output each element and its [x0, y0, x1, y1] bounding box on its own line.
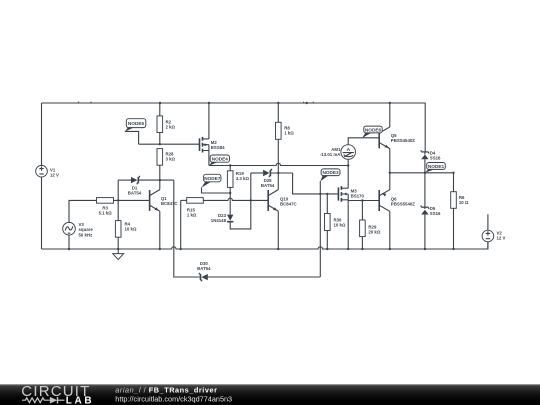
wire NODE4 net (M2 drain to AM1) [209, 163, 350, 166]
footer text [115, 385, 232, 403]
resistor R4 [115, 221, 137, 238]
svg-text:BAT54: BAT54 [197, 266, 211, 271]
svg-text:http://circuitlab.com/ck3qd774: http://circuitlab.com/ck3qd774an5n3 [115, 394, 232, 403]
resistor R8 [276, 103, 295, 173]
svg-text:BC847C: BC847C [161, 201, 179, 206]
svg-text:NODE4: NODE4 [212, 157, 229, 162]
resistor R30 [325, 193, 346, 249]
resistor R3 [97, 198, 114, 216]
wire M3 source to Q6 base [348, 199, 379, 201]
ground [113, 249, 124, 260]
transistor Q10 BC847C [268, 173, 297, 249]
svg-text:BS170: BS170 [351, 194, 365, 199]
svg-text:3.3 kΩ: 3.3 kΩ [236, 176, 250, 181]
resistor R6 [451, 173, 469, 249]
svg-text:NODE1: NODE1 [428, 164, 445, 169]
svg-text:1N4148: 1N4148 [211, 218, 227, 223]
svg-text:20 kΩ: 20 kΩ [368, 230, 380, 235]
svg-text:10 kΩ: 10 kΩ [334, 222, 346, 227]
resistor R28 [157, 149, 176, 181]
ammeter AM1 [320, 138, 379, 166]
footer bar [0, 384, 540, 405]
svg-text:SS16: SS16 [430, 156, 441, 161]
svg-text:12 V: 12 V [497, 236, 506, 241]
svg-text:1 kΩ: 1 kΩ [284, 131, 294, 136]
svg-text:LAB: LAB [66, 395, 94, 405]
voltage source V3 square 50 kHz [63, 200, 97, 249]
transistor Q5 PBSS4540Z [379, 103, 415, 173]
svg-text:5.1 kΩ: 5.1 kΩ [99, 211, 113, 216]
svg-text:1 kΩ: 1 kΩ [187, 212, 197, 217]
wire R15 to Q10 base [203, 198, 267, 200]
svg-text:2 kΩ: 2 kΩ [166, 124, 176, 129]
logo CircuitLab [21, 383, 94, 405]
svg-text:A: A [347, 147, 351, 153]
svg-text:SS16: SS16 [430, 211, 441, 216]
diode D4 SS16 [420, 151, 441, 173]
wire D1/R4 branch [117, 180, 119, 249]
diode D5 SS16 [420, 173, 441, 249]
svg-text:12 V: 12 V [50, 172, 59, 177]
MOSFET M2 BSS84 [200, 103, 226, 166]
svg-text:10 kΩ: 10 kΩ [125, 227, 137, 232]
wire output mid rail [389, 172, 455, 174]
wire D25 net to M3 gate [293, 173, 339, 194]
node NODE1 [425, 163, 445, 173]
wire R3 to Q1 base [114, 199, 149, 201]
wire NODE5 net to M2 gate [139, 143, 200, 145]
resistor R15 [181, 198, 204, 249]
svg-text:BC847C: BC847C [280, 201, 298, 206]
resistor R29 [360, 201, 381, 250]
node NODE3 [320, 169, 340, 181]
svg-text:BSS84: BSS84 [211, 145, 225, 150]
svg-text:3 kΩ: 3 kΩ [166, 157, 176, 162]
svg-text:50 kHz: 50 kHz [79, 232, 94, 237]
diode D25 BAT54 [251, 169, 293, 189]
svg-text:arian_l / FB_TRans_driver: arian_l / FB_TRans_driver [115, 385, 217, 394]
wire NODE3 to D30 [319, 181, 321, 277]
resistor R2 [157, 103, 176, 144]
resistor R19 [227, 166, 249, 194]
svg-text:NODE6: NODE6 [365, 128, 382, 133]
MOSFET M3 BS170 [338, 166, 364, 250]
wire bottom ground rail [42, 242, 488, 250]
svg-text:NODE3: NODE3 [323, 170, 340, 175]
svg-text:NODE7: NODE7 [204, 176, 221, 181]
svg-text:BAT54: BAT54 [261, 183, 275, 188]
node NODE5 [125, 119, 146, 145]
svg-text:BAT54: BAT54 [128, 191, 142, 196]
svg-text:PBSS5540Z: PBSS5540Z [391, 202, 415, 207]
diode D1 BAT54 [118, 176, 174, 196]
diode D23 1N4148 [211, 173, 252, 229]
svg-text:PBSS4540Z: PBSS4540Z [391, 138, 415, 143]
node NODE6 [362, 126, 382, 138]
node NODE7 [202, 174, 232, 194]
voltage source V2 [482, 214, 505, 249]
transistor Q1 BC847C [150, 180, 179, 249]
voltage source V1 [36, 103, 59, 249]
diode D30 BAT54 [174, 180, 320, 281]
svg-text:-13.01 mA: -13.01 mA [320, 152, 341, 157]
svg-text:NODE5: NODE5 [128, 121, 145, 126]
wire top +12V rail [42, 102, 426, 152]
node NODE4 [209, 155, 230, 166]
transistor Q6 PBSS5540Z [379, 173, 415, 249]
svg-text:10 Ω: 10 Ω [459, 200, 469, 205]
